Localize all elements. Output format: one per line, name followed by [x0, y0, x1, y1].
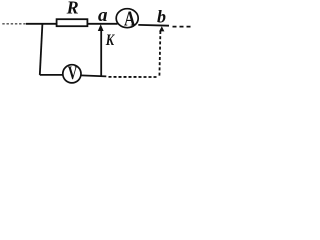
svg-text:A: A: [124, 7, 136, 31]
wire: voltmeter to probe junction: [81, 75, 106, 76]
wire: probe K vertical lead: [100, 30, 102, 76]
probe arrow at node a: [98, 24, 104, 31]
svg-text:R: R: [66, 0, 79, 18]
wire: bottom dashed rail to position b: [109, 76, 159, 78]
ammeter U1 (circle): [116, 9, 138, 28]
svg-text:b: b: [157, 7, 166, 27]
wire: left branch vertical: [40, 24, 43, 75]
svg-text:K: K: [105, 32, 115, 49]
svg-text:a: a: [98, 5, 108, 26]
wire: ammeter to node b: [138, 24, 169, 27]
probe arrow at node b (dashed position): [159, 26, 164, 31]
svg-text:V: V: [68, 63, 78, 84]
wire: resistor to ammeter: [87, 23, 117, 25]
wire: right dashed vertical at position b: [159, 31, 160, 77]
wire: right dashed lead-out: [173, 26, 191, 28]
wire: left dashed lead-in: [2, 23, 26, 25]
voltmeter U2 (circle): [63, 65, 81, 83]
wire: bottom-left horizontal to voltmeter: [40, 74, 63, 76]
wire: left solid segment to resistor: [26, 23, 57, 25]
resistor R (box): [57, 19, 88, 26]
